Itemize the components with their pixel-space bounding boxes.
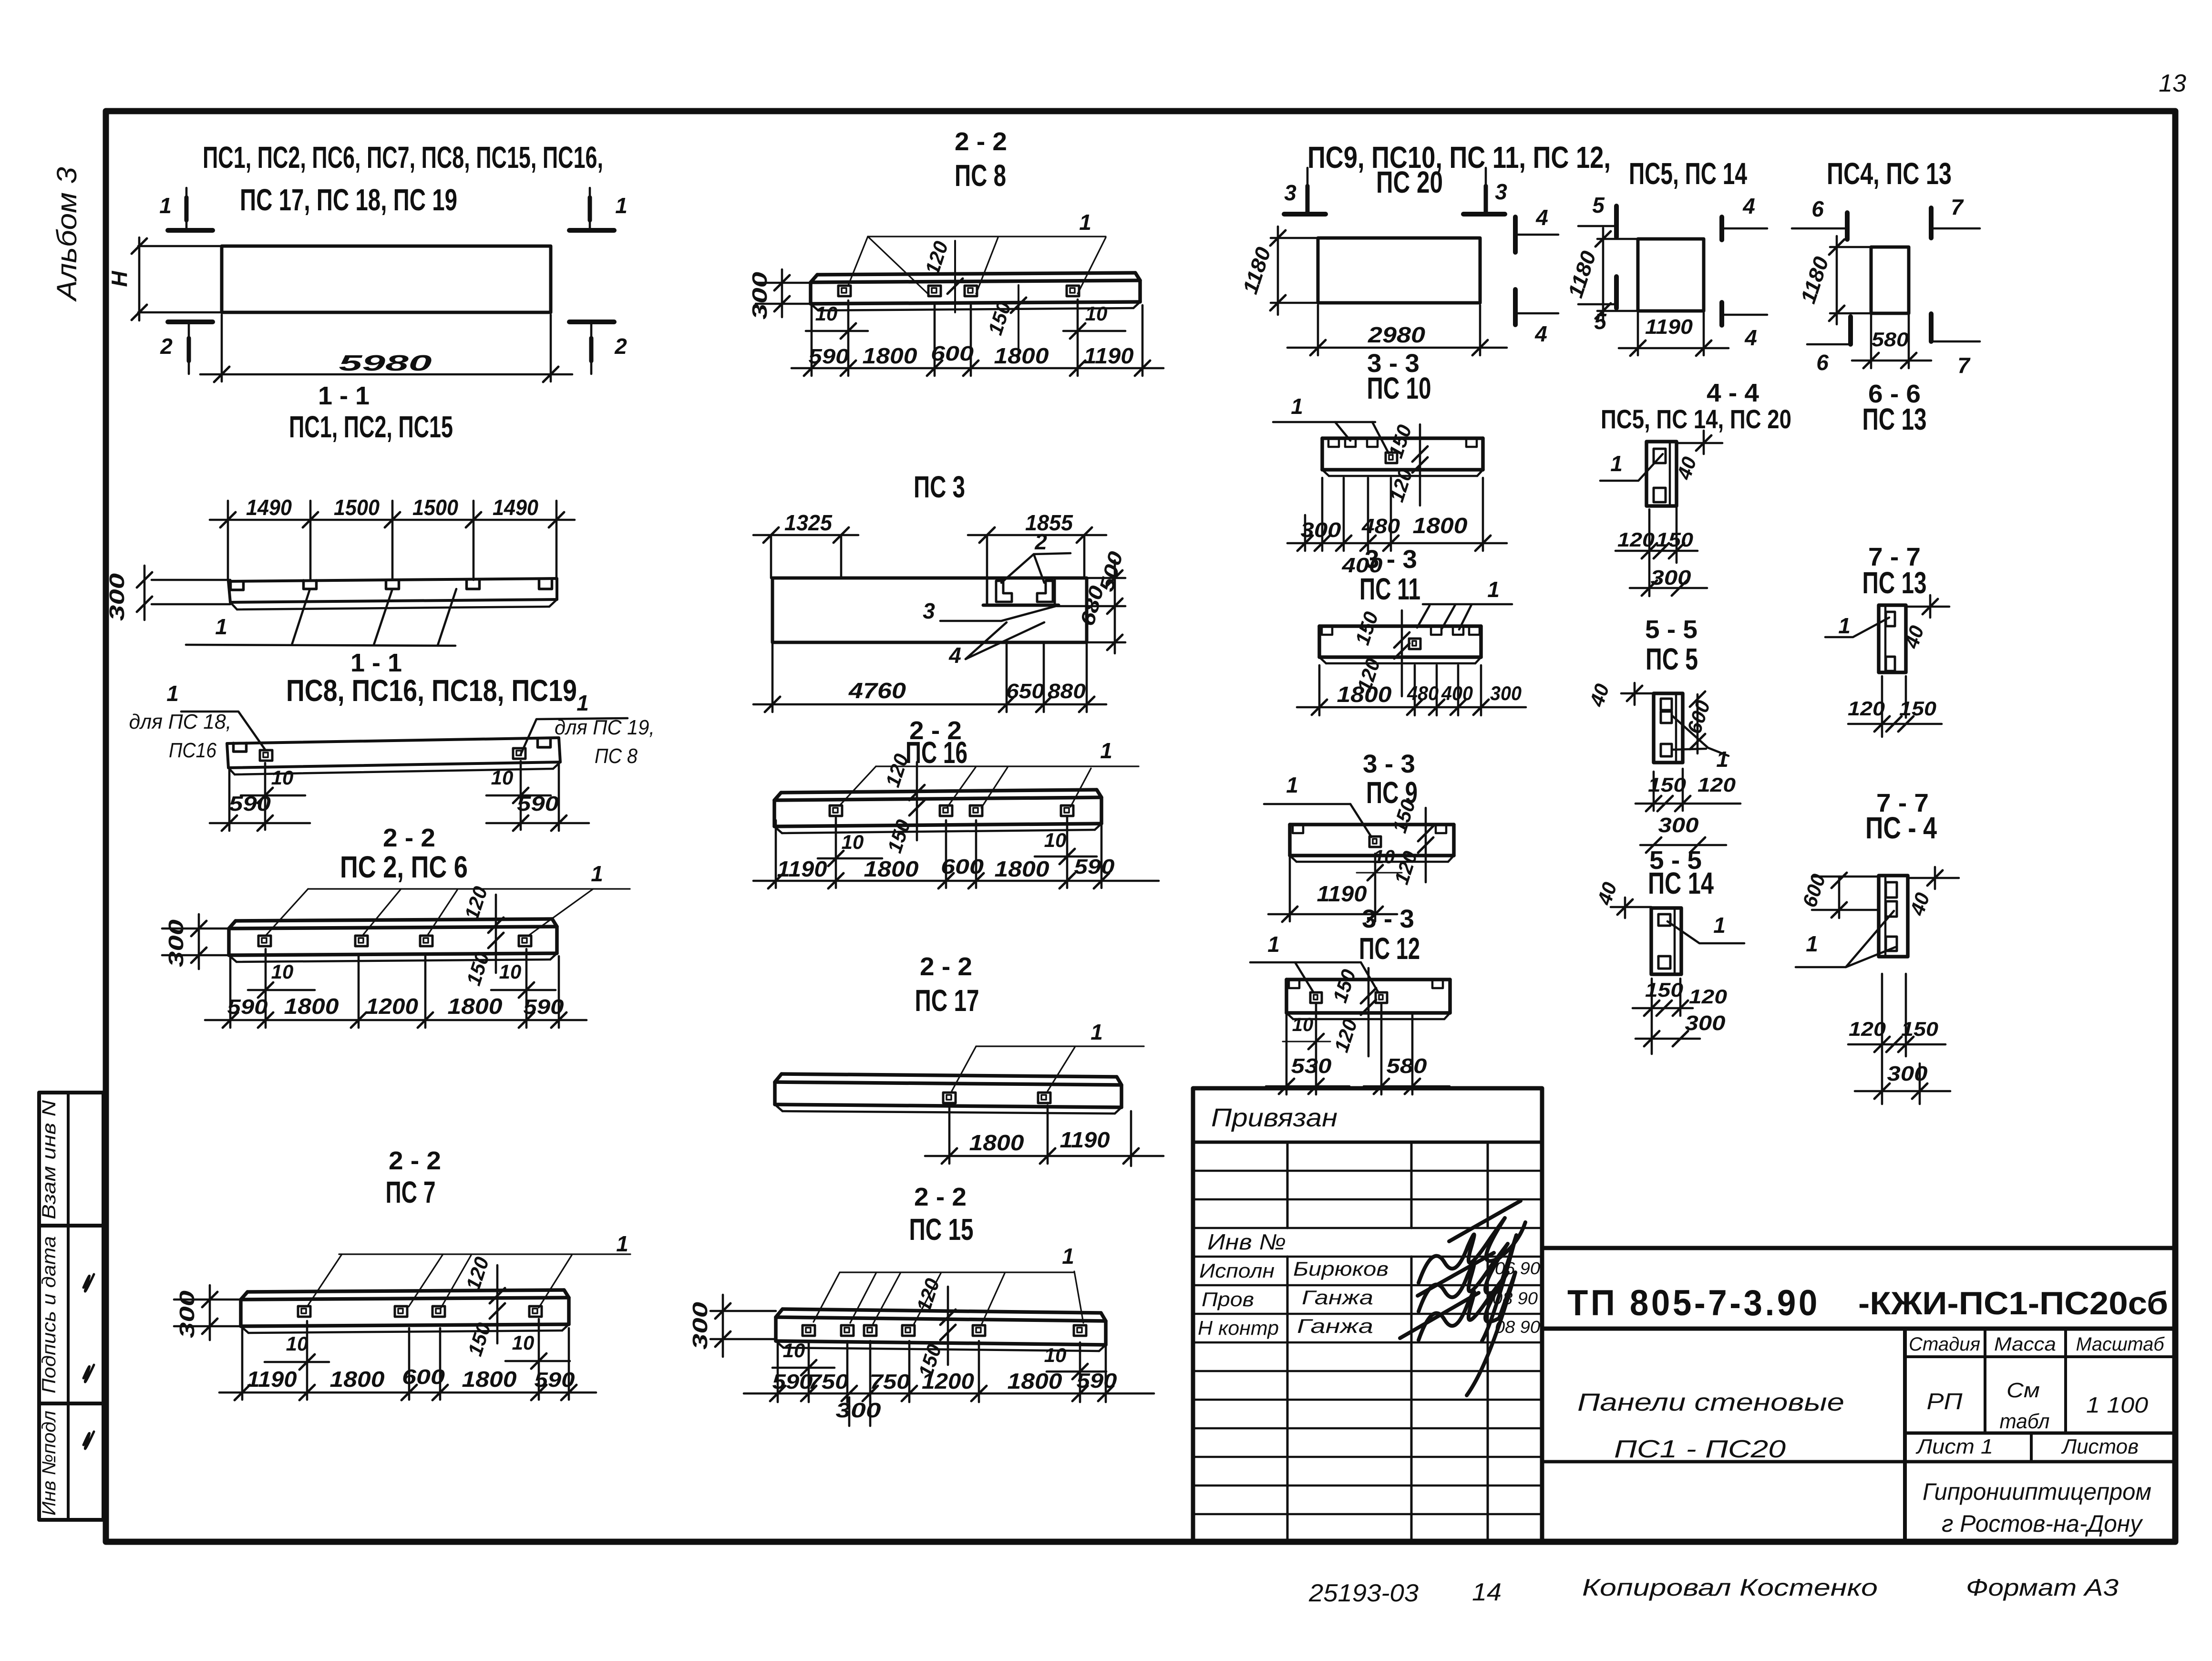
svg-text:1800: 1800 [969,1130,1024,1155]
title block header row line [1905,1355,2175,1358]
svg-text:Масштаб: Масштаб [2076,1334,2165,1355]
svg-text:1: 1 [576,691,589,715]
sidebar inner vertical line [67,1093,70,1520]
section marker 6 top [1845,213,1850,239]
table vertical line b [1410,1142,1413,1228]
dim 40 ПС13 7-7 [1906,606,1949,608]
svg-text:Н: Н [107,271,132,287]
dims 120 150 under 4-4 [1648,509,1651,596]
dim 530 ПС12 [1286,1015,1288,1094]
svg-text:табл: табл [2000,1410,2050,1433]
svg-text:1: 1 [1716,747,1728,772]
svg-text:1800: 1800 [1008,1369,1062,1393]
svg-text:1490: 1490 [493,495,538,520]
svg-text:Копировал Костенко: Копировал Костенко [1582,1574,1878,1601]
svg-text:2 - 2: 2 - 2 [389,1146,441,1175]
svg-text:2: 2 [1034,529,1047,554]
height dim H extension lines [138,245,222,248]
leader pos.1 ПС14 [1667,921,1744,943]
plan rectangle ПС4 ПС13 [1871,247,1909,313]
svg-text:ПС 13: ПС 13 [1862,402,1927,436]
svg-text:4760: 4760 [848,678,906,703]
height dim 300 ПС7 [174,1299,241,1301]
table horizontal rows [1193,1170,1542,1172]
rotated dims 120 150 ПС16 [916,762,918,840]
svg-text:1 - 1: 1 - 1 [318,382,370,410]
svg-text:300: 300 [1651,566,1692,589]
svg-text:ПС 7: ПС 7 [386,1175,436,1209]
svg-text:Листов: Листов [2061,1435,2139,1458]
dim 300 under ПС-4 [1855,1090,1950,1093]
svg-text:1: 1 [1100,738,1112,763]
svg-text:для ПС 19,: для ПС 19, [555,716,655,739]
svg-text:13: 13 [2159,70,2186,97]
dims 150 120 under ПС5 [1653,772,1655,811]
section marker 2 left [188,323,190,374]
svg-text:1: 1 [616,1231,628,1256]
panel ПС7 notches [298,1306,310,1317]
svg-text:1800: 1800 [330,1367,385,1392]
panel ПС8 notches [838,286,851,296]
svg-text:1325: 1325 [784,510,833,535]
dim 1325 ПС3 [770,535,772,578]
section 1-1 notches [231,581,244,590]
svg-text:580: 580 [1387,1054,1428,1078]
svg-text:10: 10 [1085,302,1108,325]
dim row ПС7 extension verticals [241,1328,244,1400]
svg-text:для ПС 18,: для ПС 18, [129,710,232,733]
svg-text:-КЖИ-ПС1-ПС20сб: -КЖИ-ПС1-ПС20сб [1858,1285,2168,1321]
ПС3 right dims 500 680 [1089,577,1125,579]
svg-text:10: 10 [271,960,294,983]
svg-text:10: 10 [815,302,838,325]
svg-text:2: 2 [614,334,627,359]
ПС9 top notches [1293,825,1303,833]
svg-text:Подпись и дата: Подпись и дата [39,1236,60,1393]
plan ПС4 dim 580 [1870,315,1872,368]
panel 2-2 ПС2 ПС6 outline [236,919,552,921]
dim row ПС7 line [219,1392,596,1394]
svg-text:1: 1 [591,861,603,886]
svg-text:480: 480 [1361,515,1400,538]
section marker 7 top [1929,208,1934,238]
svg-text:120: 120 [1849,1018,1886,1040]
svg-text:Гипронииптицепром: Гипронииптицепром [1923,1478,2151,1505]
svg-text:5 - 5: 5 - 5 [1645,615,1698,644]
svg-text:1500: 1500 [334,495,380,520]
svg-text:Н контр: Н контр [1198,1317,1279,1339]
sidebar signature squiggle 1 [83,1274,94,1291]
section marker 4 top [1513,217,1518,252]
svg-text:150: 150 [1645,979,1683,1001]
svg-text:650: 650 [1006,680,1045,703]
dim row ПС8 extension verticals [811,305,813,376]
svg-text:880: 880 [1048,680,1086,703]
dims 120 150 under ПС-4 [1881,974,1883,1104]
svg-text:ПС 17, ПС 18, ПС 19: ПС 17, ПС 18, ПС 19 [240,183,457,217]
dim row ПС11 extension verticals [1318,665,1321,715]
sidebar row line 1 [39,1224,103,1228]
dim row ПС17 extension verticals [948,1105,951,1164]
dim 5980 line [200,373,572,376]
ПС3 channel insert right [1037,581,1053,602]
svg-text:Инв №подл: Инв №подл [39,1411,60,1516]
svg-text:ПС5, ПС 14, ПС 20: ПС5, ПС 14, ПС 20 [1601,404,1791,434]
svg-text:300: 300 [1301,518,1342,542]
svg-text:Привязан: Привязан [1211,1104,1337,1132]
svg-text:3: 3 [923,598,935,623]
panel ПС8-19 chamfer strip [235,769,553,774]
svg-text:2 - 2: 2 - 2 [383,824,435,852]
section marker 7 bottom [1929,314,1934,341]
svg-text:1800: 1800 [462,1367,517,1392]
rotated dim 150 ПС8 [1018,285,1019,357]
svg-text:10: 10 [1044,1344,1067,1366]
svg-text:400: 400 [1441,682,1473,704]
svg-text:7: 7 [1957,353,1971,378]
dim row ПС16 extension verticals [775,820,777,888]
svg-text:Панели стеновые: Панели стеновые [1577,1389,1844,1416]
svg-text:Ганжа: Ганжа [1302,1286,1373,1309]
svg-text:1800: 1800 [284,994,339,1019]
ПС3 channel insert left [996,581,1012,602]
svg-text:5: 5 [1592,193,1605,217]
svg-text:600: 600 [941,855,984,878]
height dim H line [138,237,141,320]
svg-text:3: 3 [1495,179,1507,204]
svg-text:10: 10 [286,1332,309,1355]
svg-text:590: 590 [809,345,850,368]
svg-text:1: 1 [1091,1020,1103,1044]
svg-text:ПС16: ПС16 [169,739,216,762]
sidebar signature squiggle 2 [83,1365,94,1382]
panel ПС16 notches [830,805,842,816]
section marker 1 left [185,188,188,228]
plan ПС4 dim 1180 rotated [1830,246,1871,248]
section 3-3 ПС10 outline [1322,436,1483,440]
svg-text:г Ростов-на-Дону: г Ростов-на-Дону [1942,1510,2143,1537]
svg-text:590: 590 [227,995,268,1019]
svg-text:ПС 11: ПС 11 [1359,572,1420,606]
svg-text:06 90: 06 90 [1495,1259,1540,1278]
svg-text:4: 4 [1742,194,1755,218]
panel ПС3 main rectangle [772,578,1087,642]
leader pos.1 ПС5 5-5 [1672,715,1728,756]
panel 2-2 ПС16 outline [781,790,1097,793]
leader pos.1 ПС17 [976,1045,1144,1047]
svg-text:4: 4 [948,643,961,668]
svg-text:7: 7 [1951,195,1964,219]
svg-text:3 - 3: 3 - 3 [1362,905,1414,933]
svg-text:25193-03: 25193-03 [1308,1579,1419,1607]
svg-text:ПС 2, ПС 6: ПС 2, ПС 6 [340,850,468,884]
plan dim 2980 [1317,305,1319,355]
dim 1190 ПС9 [1289,857,1291,921]
section 5-5 ПС14 bar [1651,908,1681,974]
dim row ПС8 line [792,367,1163,370]
dims 120 150 under ПС13 [1881,676,1883,737]
dim 300 under ПС5 [1640,844,1726,846]
svg-text:4 - 4: 4 - 4 [1707,379,1759,407]
table Привязан outer box [1193,1088,1542,1541]
panel 2-2 ПС17 outline [782,1074,1117,1077]
svg-text:150: 150 [1656,528,1693,551]
panel ПС8-19 corner notch right [538,739,551,747]
ПС12 top notches [1289,980,1299,988]
svg-text:1190: 1190 [777,856,827,881]
svg-text:1500: 1500 [412,495,458,520]
svg-text:1200: 1200 [922,1369,974,1393]
svg-text:4: 4 [1534,321,1547,346]
height dim 300 section 1-1 [152,579,230,581]
svg-text:ПС 8: ПС 8 [595,744,638,768]
svg-text:120: 120 [1617,528,1655,551]
panel ПС8-19 small square notch left [260,750,272,761]
svg-text:ПС 3: ПС 3 [914,470,965,504]
dim 300 under ПС14 [1636,1038,1700,1040]
section 1-1 panel chamfer strip [237,607,549,609]
dim 40 top 4-4 [1677,442,1722,444]
plan ПС5 dim 1190 [1637,313,1639,355]
svg-text:ПС 17: ПС 17 [915,983,979,1018]
dim row ПС10 extension verticals [1304,515,1307,551]
rotated dims 150 120 ПС11 [1401,610,1403,696]
dims 1490 1500 1500 1490 extension verticals [227,501,229,580]
ПС10 top notches [1328,439,1339,447]
signature scribble 1 [1419,1201,1525,1283]
svg-text:1190: 1190 [1060,1127,1110,1152]
dims 1490 1500 1500 1490 line [210,519,575,521]
panel ПС8 ПС16 ПС18 ПС19 outline [227,738,559,743]
signature scribble 2 [1418,1235,1516,1341]
svg-text:ПС1, ПС2, ПС6, ПС7, ПС8, ПС15,: ПС1, ПС2, ПС6, ПС7, ПС8, ПС15, ПС16, [203,140,603,175]
svg-text:10: 10 [1044,829,1067,851]
svg-text:580: 580 [1872,328,1909,351]
ПС11 square notch [1409,639,1420,649]
leader pos.1 ПС7 [339,1253,630,1255]
svg-text:590: 590 [1077,1369,1118,1393]
ПС10 square notch [1386,453,1397,463]
svg-text:ПС 12: ПС 12 [1359,931,1420,966]
svg-text:1 100: 1 100 [2086,1393,2148,1417]
svg-text:1190: 1190 [1645,315,1693,339]
table vertical line a [1286,1142,1289,1228]
rotated dims 120 150 ПС7 [496,1265,499,1343]
svg-text:4: 4 [1535,205,1548,230]
ПС12 square notches [1310,992,1322,1003]
panel 2-2 ПС7 outline [247,1290,564,1292]
svg-text:ПС 14: ПС 14 [1648,866,1714,900]
svg-text:1200: 1200 [366,994,418,1019]
section 4-4 bar [1646,442,1677,506]
dim row ПС17 line [925,1155,1163,1157]
svg-text:1800: 1800 [1337,682,1392,707]
svg-text:600: 600 [931,342,974,365]
svg-text:1: 1 [1713,913,1726,938]
leader pos.1 ПС2 ПС6 [308,888,630,889]
panel ПС15 notches [802,1325,815,1336]
svg-text:Инв №: Инв № [1207,1229,1286,1254]
svg-text:1: 1 [159,193,172,218]
section 3-3 ПС12 outline [1286,978,1450,981]
dim row ПС2 ПС6 line [205,1019,586,1021]
svg-text:ТП 805-7-3.90: ТП 805-7-3.90 [1567,1283,1820,1323]
svg-text:ПС5, ПС 14: ПС5, ПС 14 [1629,156,1747,191]
svg-text:530: 530 [1291,1054,1332,1078]
plan square ПС5 ПС14 [1638,239,1704,311]
svg-text:ПС 20: ПС 20 [1376,165,1443,199]
svg-text:1: 1 [1806,931,1818,956]
svg-text:10: 10 [783,1339,805,1362]
svg-text:590: 590 [772,1370,813,1393]
rotated dims 120 150 ПС2 ПС6 [495,895,497,973]
svg-text:1490: 1490 [246,495,292,520]
svg-text:Альбом 3: Альбом 3 [51,167,82,302]
panel ПС2 ПС6 notches [258,936,271,946]
dim 300 under 4-4 [1630,587,1707,589]
sidebar box [39,1093,103,1520]
table vertical line c [1487,1142,1489,1228]
svg-text:5980: 5980 [339,351,432,375]
svg-text:ПС1, ПС2, ПС15: ПС1, ПС2, ПС15 [289,410,453,444]
svg-text:1800: 1800 [995,856,1049,881]
svg-text:10: 10 [1374,846,1395,867]
dim row ПС10 line [1287,542,1507,545]
svg-text:ПС 13: ПС 13 [1862,566,1927,600]
svg-text:1: 1 [1079,210,1091,235]
svg-text:300: 300 [175,1290,199,1338]
svg-text:ПС1 - ПС20: ПС1 - ПС20 [1614,1435,1786,1463]
svg-text:Ганжа: Ганжа [1297,1315,1373,1337]
svg-text:1800: 1800 [863,343,917,368]
title block line under list row [1542,1460,2175,1464]
dim row ПС15 line [744,1393,1154,1395]
svg-text:480: 480 [1407,682,1439,704]
svg-text:6: 6 [1811,196,1824,221]
ПС3 pocket outline [986,578,988,605]
panel ПС17 notches [943,1093,956,1103]
svg-text:ПС8, ПС16, ПС18, ПС19: ПС8, ПС16, ПС18, ПС19 [286,673,577,708]
svg-text:3 - 3: 3 - 3 [1365,545,1417,574]
svg-text:ПС9, ПС10, ПС 11, ПС 12,: ПС9, ПС10, ПС 11, ПС 12, [1307,140,1611,175]
height dim 300 ПС15 left [710,1310,776,1312]
section 7-7 ПС-4 bar [1879,876,1908,957]
section marker 4 top (plan ПС5) [1719,217,1724,240]
svg-text:ПС 5: ПС 5 [1646,642,1698,676]
svg-text:Лист 1: Лист 1 [1915,1435,1993,1458]
svg-text:Исполн: Исполн [1199,1259,1275,1282]
svg-text:590: 590 [229,792,271,815]
dim row ПС11 line [1297,706,1526,709]
svg-text:750: 750 [808,1370,849,1393]
section 5-5 ПС5 bar [1654,693,1683,763]
panel ПС8-19 small square notch right [513,748,525,759]
svg-text:10: 10 [512,1331,535,1354]
svg-text:2980: 2980 [1368,322,1426,347]
svg-text:6: 6 [1816,350,1829,375]
svg-text:Формат А3: Формат А3 [1966,1574,2119,1601]
svg-text:590: 590 [517,792,559,815]
svg-text:РП: РП [1927,1389,1963,1414]
dim 1855 ПС3 [986,535,988,578]
section marker 4 bottom (plan ПС5) [1719,302,1724,325]
svg-text:4: 4 [1744,325,1757,350]
title block line under TP row [1542,1327,2175,1331]
ПС3 bottom dim line [753,703,1106,706]
section 3-3 ПС9 outline [1290,823,1454,826]
dim row ПС15 extension verticals [777,1341,779,1402]
svg-text:10: 10 [1292,1014,1314,1035]
leader line for pos.1 of section 1-1 [186,645,455,646]
rotated dims 150 120 ПС9 [1425,808,1427,882]
svg-text:1190: 1190 [1084,343,1134,368]
svg-text:1: 1 [215,614,227,639]
svg-text:10: 10 [842,831,864,853]
svg-text:1: 1 [1267,932,1280,957]
plan rectangle ПС9-ПС12 ПС20 [1318,238,1480,303]
dim 40 ПС-4 [1908,877,1959,879]
svg-text:590: 590 [1074,855,1115,878]
svg-text:1: 1 [1062,1244,1074,1269]
svg-text:2 - 2: 2 - 2 [914,1183,967,1211]
svg-text:ПС 16: ПС 16 [905,735,967,770]
svg-text:1: 1 [1291,394,1303,419]
svg-text:1: 1 [615,193,628,218]
svg-text:1: 1 [166,681,179,706]
svg-text:ПС 10: ПС 10 [1367,371,1431,405]
section marker 1 right [589,188,591,228]
section 7-7 ПС13 bar [1879,605,1906,672]
svg-text:1800: 1800 [1413,513,1468,538]
rotated dim 120 ПС8 [954,241,956,312]
leader pos.1 ПС8 [868,236,1106,237]
svg-text:1: 1 [1610,451,1623,476]
svg-text:150: 150 [1648,774,1686,796]
svg-text:1: 1 [1487,577,1500,602]
svg-text:10: 10 [499,960,522,983]
svg-text:300: 300 [689,1301,712,1350]
svg-text:1190: 1190 [247,1367,297,1392]
svg-text:120: 120 [1698,774,1736,796]
plan dim 1180 rotated [1271,237,1318,239]
panel 2-2 ПС15 outline [782,1309,1101,1313]
title block list divider [2030,1433,2033,1462]
section 1-1 panel outline [228,578,557,581]
svg-text:Масса: Масса [1994,1334,2056,1355]
svg-text:300: 300 [836,1399,882,1422]
sidebar signature squiggle 3 [83,1432,94,1449]
svg-text:150: 150 [1901,1018,1938,1040]
svg-text:1800: 1800 [864,856,919,881]
panel front view ПС1..ПС19 rectangle [222,246,551,312]
svg-text:590: 590 [535,1368,576,1392]
svg-text:Бирюков: Бирюков [1293,1258,1389,1280]
svg-text:ПС 8: ПС 8 [955,158,1006,193]
svg-text:1 - 1: 1 - 1 [350,649,402,677]
svg-text:300: 300 [1658,814,1699,837]
svg-text:590: 590 [524,995,565,1019]
section marker 5 top [1578,225,1616,227]
panel 2-2 ПС8 outline [817,273,1135,275]
height dim 300 ПС8 [756,282,811,284]
section marker 6 bottom [1848,317,1853,344]
title block line under values row [1905,1432,2175,1435]
svg-text:300: 300 [1490,682,1522,704]
svg-text:3 - 3: 3 - 3 [1363,750,1415,778]
svg-text:1800: 1800 [448,994,503,1019]
rotated dims 120 150 ПС15 [947,1287,949,1365]
svg-text:10: 10 [271,766,294,789]
